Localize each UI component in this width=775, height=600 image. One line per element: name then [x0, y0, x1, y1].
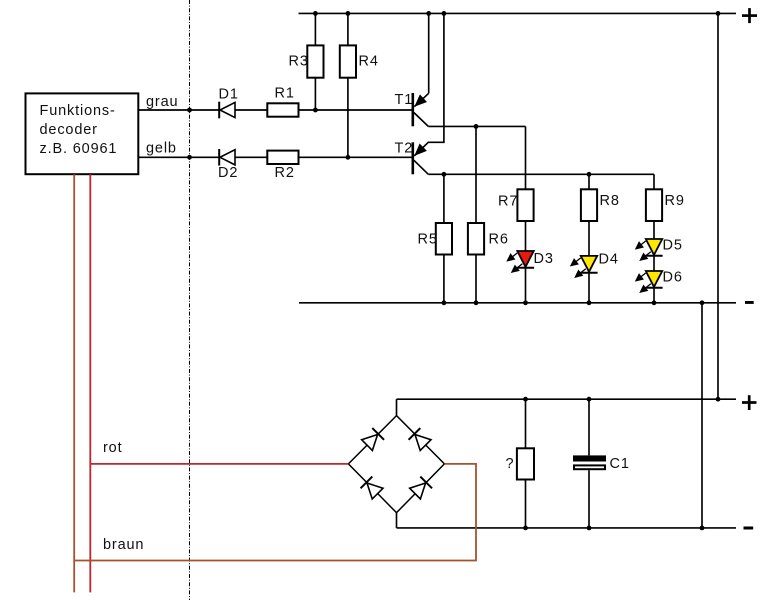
decoder box U1 Funktionsdecoder — [26, 93, 139, 174]
wire ? resistor to minus rail — [525, 480, 527, 528]
resistor R3 — [307, 45, 323, 77]
wire D1 to R1 — [235, 109, 267, 111]
wire down to R9 — [653, 174, 655, 189]
capacitor C1 — [573, 455, 606, 469]
svg-text:decoder: decoder — [40, 122, 98, 138]
junction gelb R4 node — [346, 155, 351, 160]
svg-text:R2: R2 — [275, 165, 295, 181]
wire lower plus rail — [397, 398, 737, 400]
wire down to R7 — [525, 126, 527, 189]
wire brown vertical from decoder — [73, 174, 75, 592]
svg-text:R1: R1 — [275, 86, 295, 102]
resistor R6 — [468, 223, 484, 255]
wire upper minus to lower minus rail — [701, 303, 703, 528]
LED D3 red — [508, 251, 535, 272]
wire R8 to D4 — [588, 221, 590, 256]
junction lower minus rail C1 — [587, 526, 592, 531]
junction minus rail x=654 — [652, 300, 657, 305]
svg-text:R4: R4 — [359, 53, 379, 69]
resistor R4 — [340, 45, 356, 77]
svg-text:C1: C1 — [610, 456, 630, 472]
transistor T1 — [413, 13, 429, 126]
diode D2 — [219, 149, 235, 166]
junction T2 collector R5 — [442, 172, 447, 177]
wire R2 to T2 base — [299, 156, 413, 158]
wire grau from decoder to D1 — [138, 109, 219, 111]
wire R3 to grau node — [314, 78, 316, 110]
junction lower plus rail ? — [523, 397, 528, 402]
wire D3 to minus rail — [525, 268, 527, 303]
junction rail T1 emitter — [426, 11, 431, 16]
svg-text:z.B. 60961: z.B. 60961 — [40, 141, 118, 157]
wire R9 to D5 — [653, 221, 655, 239]
svg-text:D3: D3 — [534, 251, 554, 267]
label + top rail — [742, 8, 757, 23]
wire R5 to minus rail — [443, 255, 445, 303]
junction minus rail x=476 — [474, 300, 479, 305]
wire upper minus rail — [299, 302, 736, 304]
wire C1 to minus rail — [588, 470, 590, 528]
wire red vertical from decoder — [89, 174, 91, 592]
wire bridge top to plus rail — [396, 399, 398, 415]
junction lower minus rail right — [700, 526, 705, 531]
resistor R5 — [436, 223, 452, 255]
wire T1 node down to R6 — [475, 126, 477, 223]
LED D4 yellow — [571, 256, 598, 277]
resistor R7 — [517, 189, 533, 221]
junction minus rail x=525.5 — [523, 300, 528, 305]
bridge diode lower-right — [409, 477, 432, 500]
bridge diode lower-left — [361, 477, 384, 500]
wire braun horizontal and up to bridge right — [74, 464, 476, 561]
diode D1 — [219, 102, 235, 119]
junction grau at boundary — [187, 108, 192, 113]
junction rail T2 emitter — [442, 11, 447, 16]
svg-text:R5: R5 — [418, 232, 438, 248]
label - lower rail — [744, 527, 754, 530]
svg-text:D6: D6 — [663, 269, 683, 285]
svg-text:T1: T1 — [395, 92, 414, 108]
junction rail R3 — [313, 11, 318, 16]
wire gelb from decoder to D2 — [138, 156, 219, 158]
svg-text:?: ? — [506, 456, 515, 472]
resistor R9 — [646, 189, 662, 221]
wire rail to R4 — [347, 13, 349, 45]
wire bridge bottom to minus rail — [396, 513, 398, 528]
wire rot horizontal to bridge left — [90, 463, 348, 465]
svg-text:braun: braun — [103, 537, 144, 553]
junction lower plus rail right — [716, 397, 721, 402]
wire top positive rail — [299, 12, 737, 14]
svg-text:R9: R9 — [665, 193, 685, 209]
dash-dot boundary line — [189, 0, 191, 600]
svg-text:rot: rot — [103, 440, 122, 456]
wire down to R8 — [588, 174, 590, 189]
svg-text:D5: D5 — [663, 237, 683, 253]
wire D4 to minus rail — [588, 273, 590, 303]
svg-text:D4: D4 — [599, 251, 619, 267]
wire D6 to minus rail — [653, 288, 655, 303]
svg-text:R6: R6 — [489, 232, 509, 248]
wire plus rail to ? resistor — [525, 399, 527, 448]
junction T2 collector R8 — [587, 172, 592, 177]
junction lower minus rail ? — [523, 526, 528, 531]
svg-text:Funktions-: Funktions- — [40, 103, 116, 119]
wire rail to R3 — [314, 13, 316, 45]
wire plus rail to lower plus rail — [717, 13, 719, 399]
junction rail R4 — [346, 11, 351, 16]
wire D5 to D6 — [653, 256, 655, 271]
wire R7 to D3 — [525, 221, 527, 251]
resistor ? unknown — [517, 448, 534, 479]
wire T2 collector horizontal — [428, 173, 654, 175]
bridge diode upper-left — [361, 428, 384, 451]
LED D5 yellow — [636, 239, 663, 260]
svg-text:gelb: gelb — [146, 141, 177, 157]
wire R6 to minus rail — [475, 255, 477, 303]
svg-text:grau: grau — [146, 94, 178, 110]
wire D2 to R2 — [235, 156, 267, 158]
wire down to R5 — [443, 174, 445, 223]
wire R1 to T1 base — [299, 109, 413, 111]
junction gelb at boundary — [187, 155, 192, 160]
junction minus rail x=443.9 — [442, 300, 447, 305]
svg-text:R3: R3 — [289, 53, 309, 69]
resistor R1 — [267, 103, 298, 116]
junction T1 collector R6 — [474, 124, 479, 129]
junction minus rail x=589 — [587, 300, 592, 305]
wire R4 to gelb node — [347, 78, 349, 158]
label + lower rail — [742, 395, 757, 410]
resistor R8 — [581, 189, 597, 221]
svg-text:D1: D1 — [219, 86, 239, 102]
svg-text:R8: R8 — [600, 193, 620, 209]
junction grau R3 node — [313, 108, 318, 113]
svg-text:D2: D2 — [218, 165, 238, 181]
LED D6 yellow — [636, 271, 663, 292]
svg-text:T2: T2 — [395, 141, 414, 157]
wire T1 collector horizontal — [428, 125, 525, 127]
transistor T2 — [413, 13, 444, 174]
resistor R2 — [267, 151, 298, 164]
junction top rail right — [716, 11, 721, 16]
bridge rectifier diamond — [348, 416, 444, 513]
junction lower plus rail C1 — [587, 397, 592, 402]
wire lower minus rail — [397, 527, 737, 529]
label - upper rail — [745, 301, 754, 304]
wire plus rail to C1 — [588, 399, 590, 455]
svg-text:R7: R7 — [498, 194, 518, 210]
bridge diode upper-right — [409, 428, 432, 451]
junction minus rail x=702 — [700, 300, 705, 305]
